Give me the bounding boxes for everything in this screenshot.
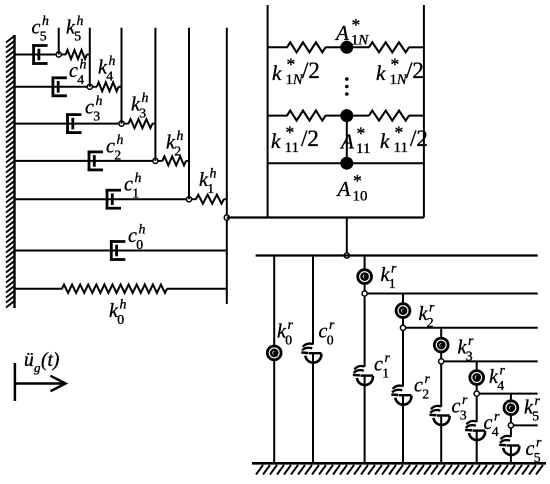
node row 4 (87, 84, 92, 89)
node row 3 (119, 121, 124, 126)
box row A11 line (268, 115, 288, 117)
platform node (362, 291, 367, 296)
platform line 5 (477, 393, 538, 395)
mass A1N (340, 41, 353, 54)
rotational spring k1r (358, 270, 372, 284)
column x=403.0 (402, 294, 404, 464)
ground line (252, 462, 546, 465)
junction node main column (224, 215, 229, 220)
rotational spring k0r (267, 346, 281, 360)
spring k11/2 left (287, 111, 326, 121)
spring k1N/2 right (369, 42, 409, 52)
rotational damper c4r (475, 422, 478, 430)
column x=476.7 (476, 361, 478, 463)
hanger line 3 (121, 28, 123, 124)
wire row c0h (15, 250, 227, 252)
spring k0h (62, 285, 167, 293)
rotational spring k5r (504, 401, 518, 415)
node row 5 (56, 52, 61, 57)
column x=441.2 (440, 328, 442, 464)
spring k3h (124, 123, 129, 125)
box row A10 line (268, 162, 424, 164)
platform line 4 (441, 360, 538, 362)
link box to lower platform (346, 218, 348, 256)
rotational damper c1r (363, 367, 366, 375)
rotational damper c5r (509, 437, 512, 445)
box bottom line (227, 216, 424, 218)
damper c0h (110, 240, 125, 260)
mass A10 (340, 157, 353, 170)
vertical dots (345, 77, 349, 81)
mass A11 (340, 109, 353, 122)
spring k0h row: wire (15, 288, 63, 290)
node on platform line 1 (344, 253, 349, 258)
hanger line 2 (89, 28, 91, 87)
platform line 6 (511, 424, 538, 426)
damper c4h (52, 77, 67, 97)
box left wall (267, 5, 269, 218)
damper c2h (88, 151, 103, 171)
platform node (400, 325, 405, 330)
wall hatching (6, 36, 14, 308)
rotational spring k3r (434, 338, 448, 352)
platform node (439, 359, 444, 364)
wire row c5h from wall to node (15, 54, 57, 56)
hanger line 1 (58, 28, 60, 55)
platform line 2 (365, 293, 538, 295)
spring k5h (61, 54, 66, 56)
wire row c2h from wall to node (15, 160, 154, 162)
platform line 1 (256, 254, 538, 256)
damper c3h (66, 113, 81, 133)
ground hatching (256, 465, 543, 475)
rotational spring k2r (396, 304, 410, 318)
damper c5h (32, 44, 47, 64)
damper c1h (106, 189, 121, 209)
platform node (508, 423, 513, 428)
hanger line 6 (main column) (226, 28, 228, 304)
rotational damper c2r (401, 387, 404, 395)
wire row c4h from wall to node (15, 86, 88, 88)
spring k4h (92, 86, 97, 88)
box row A1N line (268, 46, 288, 48)
spring k1N/2 left (287, 42, 326, 52)
wire row c1h from wall to node (15, 198, 188, 200)
column x=510.9 (510, 394, 512, 464)
hanger line 4 (154, 28, 156, 161)
box right wall (423, 5, 425, 218)
ground motion arrow u_g(t) (14, 363, 17, 401)
wire row c3h from wall to node (15, 123, 120, 125)
spring k1h (191, 198, 196, 200)
link A11-A10 (346, 116, 348, 164)
spring k11/2 right (369, 111, 409, 121)
platform line 3 (403, 327, 538, 329)
column x=313.0 (312, 256, 314, 464)
hanger line 5 (188, 28, 190, 200)
rotational damper c3r (440, 407, 443, 415)
left support wall (13, 35, 15, 308)
column x=364.6 (364, 256, 366, 464)
node row 1 (186, 197, 191, 202)
rotational spring k4r (470, 371, 484, 385)
node row 2 (153, 158, 158, 163)
platform node (474, 391, 479, 396)
column x=274.2 (273, 256, 275, 464)
spring k2h (158, 160, 163, 162)
rotational damper c0r (311, 345, 314, 353)
